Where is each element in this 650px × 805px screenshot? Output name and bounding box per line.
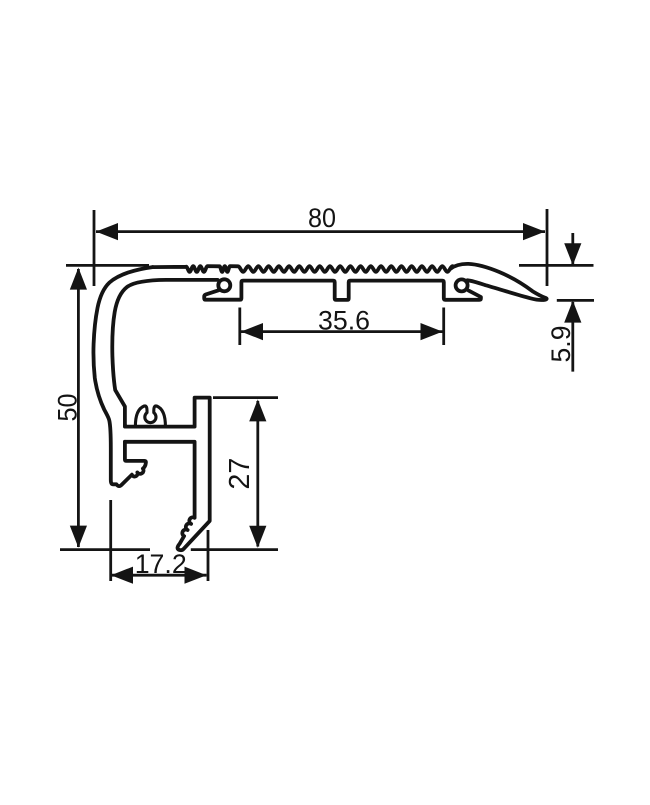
omega screw-boss clip — [135, 406, 165, 427]
dim 17.2 extension left — [109, 500, 112, 581]
svg-text:50: 50 — [53, 394, 83, 422]
dim 50 line — [77, 269, 80, 547]
dim 35.6 arrow left — [241, 323, 263, 340]
dim 50 bottom extension — [60, 548, 150, 551]
dim 80 line — [96, 230, 545, 233]
dim 35.6 line — [241, 330, 443, 333]
dim 5.9 lower line — [571, 302, 574, 372]
dim 50 arrow down — [70, 526, 87, 548]
dim 17.2 extension right — [207, 530, 210, 581]
dim 5.9 top extension — [519, 264, 594, 267]
dim 27 arrow down — [249, 526, 266, 548]
dim 27 top extension — [213, 396, 278, 399]
bullnose inner curve and plate underside left — [112, 280, 217, 427]
dim 5.9 arrow up — [564, 301, 581, 323]
left hook circle — [218, 279, 230, 291]
dim 35.6 extension left — [238, 308, 241, 346]
bullnose outer wall and barbed foot — [93, 267, 152, 486]
svg-text:17.2: 17.2 — [135, 549, 187, 579]
svg-text:80: 80 — [308, 203, 336, 233]
dim 27 bottom extension — [191, 548, 278, 551]
dim 80 extension line left — [93, 210, 96, 286]
svg-text:27: 27 — [224, 458, 256, 490]
dim 17.2 arrow right — [185, 567, 207, 584]
dim 50 arrow up — [70, 268, 87, 290]
leg right edge, top and flange top — [125, 398, 210, 551]
profile right tail inner curve — [468, 280, 547, 300]
dim 80 extension line right — [546, 209, 549, 286]
dim 35.6 arrow right — [421, 323, 443, 340]
profile right tail outer curve — [451, 264, 546, 298]
dim 5.9 bottom extension — [557, 299, 594, 302]
dim 5.9 arrow down — [564, 243, 581, 265]
dim 80 arrow left — [96, 223, 118, 240]
dim 35.6 extension right — [442, 308, 445, 346]
dim 27 line — [256, 401, 259, 547]
profile top surface with serration — [153, 266, 453, 272]
dim 50 top extension — [66, 264, 149, 267]
right hook circle — [456, 279, 468, 291]
plate underside with centre rib and hooks — [204, 281, 481, 300]
dim 5.9 upper line — [571, 233, 574, 264]
svg-text:5.9: 5.9 — [546, 326, 576, 363]
dim 17.2 line — [111, 574, 207, 577]
dim 27 arrow up — [249, 399, 266, 421]
flange bottom and leg with barbed tip — [125, 442, 195, 550]
svg-text:35.6: 35.6 — [318, 306, 370, 336]
dim 80 arrow right — [523, 223, 545, 240]
dim 17.2 arrow left — [111, 567, 133, 584]
